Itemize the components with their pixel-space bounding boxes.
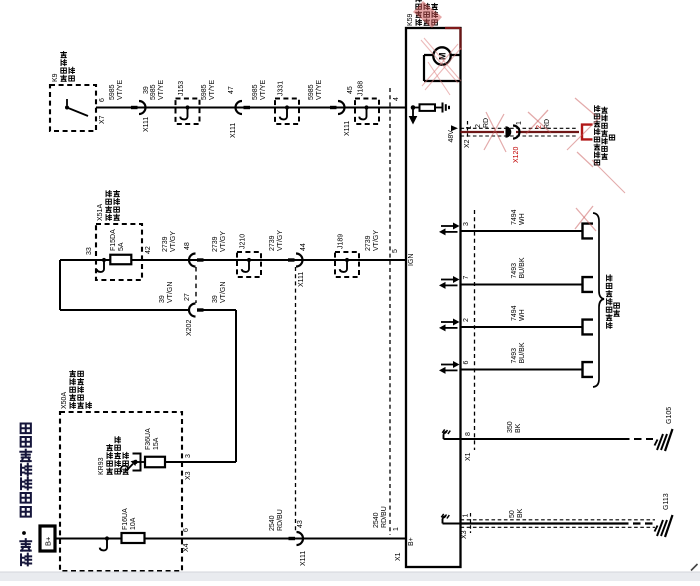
svg-text:5985: 5985	[150, 84, 157, 100]
svg-text:7494: 7494	[511, 209, 518, 225]
svg-text:X51A: X51A	[97, 204, 104, 221]
svg-text:39: 39	[143, 86, 150, 94]
svg-text:VT/GY: VT/GY	[220, 231, 227, 252]
svg-text:RD/BU: RD/BU	[381, 506, 388, 528]
svg-text:350: 350	[507, 421, 514, 433]
svg-text:X7: X7	[99, 115, 106, 124]
svg-text:7493: 7493	[511, 348, 518, 364]
svg-text:7494: 7494	[511, 305, 518, 321]
svg-text:5985: 5985	[201, 84, 208, 100]
svg-text:G113: G113	[663, 493, 670, 510]
svg-text:X111: X111	[300, 551, 307, 566]
svg-text:47: 47	[228, 86, 235, 94]
svg-text:G105: G105	[666, 407, 673, 424]
svg-text:7: 7	[463, 276, 470, 280]
svg-text:8: 8	[465, 432, 472, 436]
svg-text:J153: J153	[178, 81, 185, 96]
svg-text:X111: X111	[298, 272, 305, 287]
svg-text:5985: 5985	[109, 84, 116, 100]
svg-text:1: 1	[516, 121, 523, 125]
svg-text:2: 2	[475, 124, 482, 128]
svg-text:1: 1	[393, 527, 400, 531]
svg-text:2739: 2739	[365, 235, 372, 251]
svg-text:J210: J210	[240, 234, 247, 249]
svg-text:RD/BU: RD/BU	[277, 509, 284, 531]
svg-text:X120: X120	[513, 147, 520, 163]
svg-text:X202: X202	[186, 320, 193, 336]
svg-text:BU/BK: BU/BK	[519, 257, 526, 278]
svg-text:IGN: IGN	[408, 254, 415, 266]
svg-text:6: 6	[463, 361, 470, 365]
svg-text:RD: RD	[483, 118, 490, 128]
svg-text:45: 45	[347, 86, 354, 94]
svg-text:F36UA: F36UA	[145, 428, 152, 450]
svg-text:2540: 2540	[373, 512, 380, 528]
svg-text:VT/YE: VT/YE	[158, 79, 165, 100]
svg-text:X111: X111	[230, 123, 237, 138]
svg-text:X1: X1	[395, 552, 402, 561]
svg-text:BK: BK	[517, 508, 524, 518]
svg-text:3: 3	[463, 222, 470, 226]
svg-text:VT/GY: VT/GY	[170, 231, 177, 252]
svg-text:VT/GY: VT/GY	[373, 230, 380, 251]
svg-text:J331: J331	[278, 81, 285, 96]
svg-text:K59: K59	[407, 13, 414, 26]
svg-text:X3: X3	[185, 471, 192, 480]
svg-text:44: 44	[300, 243, 307, 251]
svg-text:6: 6	[183, 528, 190, 532]
svg-text:5: 5	[392, 249, 399, 253]
svg-text:KR93: KR93	[98, 457, 105, 475]
svg-text:X2: X2	[464, 139, 471, 148]
svg-text:F16UA: F16UA	[122, 508, 129, 530]
svg-text:X111: X111	[344, 121, 351, 136]
svg-text:3: 3	[185, 454, 192, 458]
svg-text:K9: K9	[52, 73, 59, 82]
svg-text:43: 43	[297, 520, 304, 528]
svg-text:VT/YE: VT/YE	[260, 79, 267, 100]
svg-text:VT/YE: VT/YE	[117, 79, 124, 100]
svg-text:10A: 10A	[130, 517, 137, 530]
svg-text:X111: X111	[143, 117, 150, 132]
svg-text:2739: 2739	[269, 235, 276, 251]
svg-text:50: 50	[509, 510, 516, 518]
svg-text:F15DA: F15DA	[110, 229, 117, 251]
svg-text:X1: X1	[465, 452, 472, 461]
svg-text:BK: BK	[515, 423, 522, 433]
svg-text:VT/GN: VT/GN	[167, 282, 174, 303]
svg-text:VT/GN: VT/GN	[220, 282, 227, 303]
svg-text:4: 4	[393, 97, 400, 101]
svg-text:VT/YE: VT/YE	[209, 79, 216, 100]
svg-text:42: 42	[145, 246, 152, 254]
svg-text:5985: 5985	[308, 84, 315, 100]
svg-text:WH: WH	[519, 213, 526, 225]
svg-text:X50A: X50A	[61, 392, 68, 409]
svg-text:39: 39	[159, 295, 166, 303]
svg-text:X4: X4	[183, 543, 190, 552]
svg-text:B+: B+	[408, 537, 415, 546]
svg-text:B+: B+	[44, 536, 53, 546]
svg-text:27: 27	[184, 293, 191, 301]
svg-text:J189: J189	[338, 234, 345, 249]
svg-text:5A: 5A	[118, 242, 125, 251]
svg-text:48V: 48V	[448, 130, 455, 143]
svg-text:X3: X3	[461, 530, 468, 539]
svg-text:15A: 15A	[153, 437, 160, 450]
svg-text:2540: 2540	[269, 515, 276, 531]
svg-text:2739: 2739	[212, 236, 219, 252]
svg-text:VT/YE: VT/YE	[316, 79, 323, 100]
svg-text:1: 1	[463, 514, 470, 518]
svg-text:VT/GY: VT/GY	[277, 230, 284, 251]
svg-text:5985: 5985	[252, 84, 259, 100]
svg-text:48: 48	[184, 242, 191, 250]
svg-text:2739: 2739	[162, 236, 169, 252]
svg-text:6: 6	[99, 98, 106, 102]
svg-text:J188: J188	[358, 81, 365, 96]
svg-text:33: 33	[86, 247, 93, 255]
svg-text:2: 2	[463, 318, 470, 322]
svg-text:39: 39	[212, 295, 219, 303]
svg-text:WH: WH	[519, 309, 526, 321]
svg-text:1: 1	[466, 126, 473, 130]
svg-text:BU/BK: BU/BK	[519, 342, 526, 363]
svg-text:7493: 7493	[511, 263, 518, 279]
